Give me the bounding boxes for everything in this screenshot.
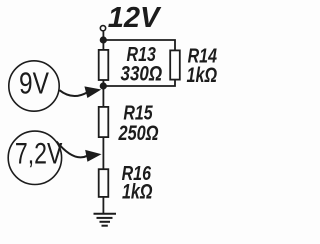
svg-text:1kΩ: 1kΩ [187, 64, 218, 88]
value 1k ohm (R16) [122, 180, 153, 204]
value 1k ohm (R14) [187, 64, 218, 88]
ground [94, 214, 117, 226]
label R16 [122, 161, 152, 184]
svg-text:9V: 9V [19, 66, 49, 100]
label 7,2V [15, 136, 63, 170]
meter circle 9V [9, 61, 59, 111]
wire main vertical bus [102, 32, 104, 214]
value 250ohm [118, 122, 159, 146]
svg-text:7,2V: 7,2V [15, 136, 63, 170]
arrow from 9V to node B [60, 90, 87, 96]
label 9V [19, 66, 49, 100]
svg-text:1kΩ: 1kΩ [122, 180, 153, 204]
svg-text:250Ω: 250Ω [118, 122, 159, 146]
terminal +12V [100, 26, 105, 31]
svg-text:330Ω: 330Ω [121, 62, 163, 86]
arrow from 7,2V to node between R15 and R16 [57, 142, 88, 158]
resistor R13 body [99, 50, 109, 80]
value 330ohm [121, 62, 163, 86]
resistor R15 body [99, 107, 109, 137]
wire R14 bottom to node B [103, 80, 175, 87]
node B junction dot [100, 82, 107, 89]
resistor R14 body [170, 50, 180, 79]
label R13 [127, 42, 157, 65]
svg-text:R15: R15 [123, 101, 153, 124]
node A junction dot [100, 36, 107, 43]
resistor R16 body [99, 169, 109, 197]
label R14 [188, 44, 217, 67]
svg-text:12V: 12V [108, 2, 162, 34]
meter circle 7,2V [8, 131, 61, 184]
wire top horizontal to R14 branch [103, 40, 175, 51]
label R15 [123, 101, 153, 124]
